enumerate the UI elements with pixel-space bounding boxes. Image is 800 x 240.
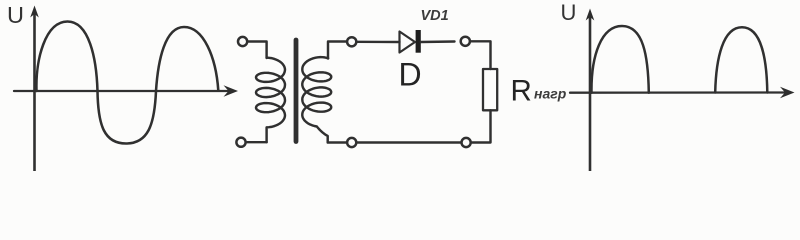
transformer T1: primary terminal (bottom) — [236, 138, 245, 147]
diode VD1: triangle (anode) — [400, 32, 416, 53]
output waveform: rectified half-sine hump 2 — [715, 27, 767, 92]
input graph vertical axis (U) — [30, 6, 39, 172]
svg-text:U: U — [7, 2, 24, 28]
transformer T1: primary terminal (top) — [238, 37, 247, 46]
transformer T1: core — [294, 40, 299, 142]
wire: primary top terminal to primary winding — [247, 42, 266, 59]
svg-text:VD1: VD1 — [421, 8, 449, 24]
output graph vertical axis (U) — [586, 9, 595, 172]
wire: resistor R нагр (bottom) to node D — [472, 110, 491, 142]
input sine waveform (full sine, two positive humps and one negative trough) — [36, 22, 218, 144]
node C: secondary return terminal (bottom) — [347, 138, 356, 147]
wire: secondary winding top to node A — [328, 42, 346, 59]
diode VD1: cathode bar — [416, 30, 421, 53]
output waveform: rectified half-sine hump 1 — [591, 26, 648, 93]
svg-text:нагр: нагр — [534, 86, 567, 102]
transformer T1: primary winding — [256, 58, 285, 143]
wire: node D to node C — [358, 141, 461, 143]
wire: node A to diode VD1 anode — [357, 41, 400, 44]
output graph horizontal axis (t) — [570, 87, 795, 98]
transformer T1: secondary winding — [302, 57, 331, 142]
resistor R нагр (load) — [483, 69, 497, 110]
svg-text:R: R — [511, 75, 532, 108]
node A: secondary output terminal (top) — [347, 37, 356, 46]
wire: primary winding to bottom terminal — [247, 141, 267, 143]
wire: diode VD1 cathode to node B — [421, 40, 455, 43]
node D: rectifier return terminal (bottom) — [462, 138, 471, 147]
node B: rectifier output terminal (top) — [461, 37, 470, 46]
wire: node C to secondary winding bottom — [328, 141, 346, 143]
svg-text:D: D — [399, 57, 422, 93]
wire: node B to resistor R нагр (top) — [470, 41, 490, 69]
input graph horizontal axis (t) — [14, 85, 238, 96]
svg-text:U: U — [561, 0, 577, 25]
